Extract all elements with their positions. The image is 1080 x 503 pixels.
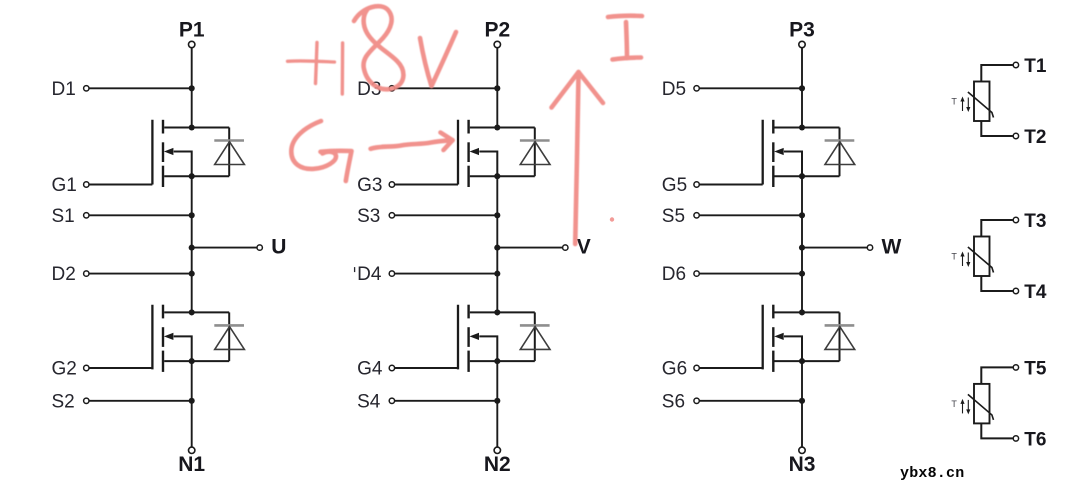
svg-text:T1: T1 [1024, 56, 1047, 77]
thermistor RT2 (NTC temperature sensor) [951, 220, 1013, 291]
diode body diode of Q1 [214, 128, 244, 177]
svg-text:T4: T4 [1024, 282, 1047, 303]
svg-text:D1: D1 [52, 79, 76, 100]
node T4 terminal [1013, 282, 1047, 303]
svg-text:G2: G2 [52, 359, 77, 380]
junction S2 on bus [189, 398, 195, 404]
wire D1 to bus [89, 87, 192, 89]
wire mid bus (upper source to lower drain) [801, 176, 803, 312]
wire lower bus (lower source to N2) [496, 361, 498, 447]
svg-text:N1: N1 [178, 453, 205, 476]
junction Q2 drain/bus [189, 309, 195, 315]
node D3 (upper drain sense) [357, 79, 394, 100]
junction Q3 source/bus [494, 173, 500, 179]
transistor Q3 upper N-MOSFET [458, 120, 535, 187]
junction phase U [189, 245, 195, 251]
transistor Q1 upper N-MOSFET [152, 120, 229, 187]
wire D5 to bus [699, 87, 802, 89]
svg-text:S5: S5 [662, 206, 685, 227]
wire phase output V [497, 247, 562, 249]
junction D3 on bus [494, 85, 500, 91]
annotation "G" with squiggly arrow pointing to Q3 gate (red) [291, 121, 452, 181]
node G4 (lower gate) [357, 359, 394, 380]
junction D5 on bus [799, 85, 805, 91]
wire G1 to gate [89, 184, 152, 186]
wire S4 to bus [395, 400, 498, 402]
node G3 (upper gate) [357, 175, 394, 196]
diode body diode of Q3 [520, 128, 550, 177]
node P3 (positive rail terminal) [789, 19, 815, 48]
junction Q4 drain/bus [494, 309, 500, 315]
node V (phase output terminal) [563, 235, 591, 258]
svg-text:ybx8.cn: ybx8.cn [900, 465, 964, 482]
node P2 (positive rail terminal) [484, 19, 510, 48]
transistor Q5 upper N-MOSFET [763, 120, 840, 187]
svg-text:V: V [577, 235, 591, 258]
svg-text:D6: D6 [662, 264, 686, 285]
node D2 (lower drain sense) [52, 264, 90, 285]
wire phase output U [192, 247, 257, 249]
node T2 terminal [1013, 127, 1046, 148]
junction Q3 drain/bus [494, 124, 500, 130]
junction phase V [494, 245, 500, 251]
wire D6 to bus [699, 273, 802, 275]
node T1 terminal [1013, 56, 1047, 77]
wire G3 to gate [395, 184, 459, 186]
svg-text:D4: D4 [357, 264, 382, 285]
svg-text:S3: S3 [357, 206, 380, 227]
node G1 (upper gate) [52, 175, 90, 196]
svg-text:D5: D5 [662, 79, 686, 100]
node S2 (lower source sense) [52, 391, 90, 412]
node G2 (lower gate) [52, 359, 90, 380]
junction Q2 source/bus [189, 358, 195, 364]
wire P1 bus down to upper drain [191, 48, 193, 128]
junction S3 on bus [494, 212, 500, 218]
junction S4 on bus [494, 398, 500, 404]
diode body diode of Q6 [825, 312, 855, 361]
node S4 (lower source sense) [357, 391, 394, 412]
junction Q6 source/bus [799, 358, 805, 364]
wire S6 to bus [699, 400, 802, 402]
annotation "+18V" hand-written in red [288, 6, 457, 94]
junction Q5 drain/bus [799, 124, 805, 130]
svg-text:S6: S6 [662, 391, 685, 412]
svg-text:T5: T5 [1024, 358, 1047, 379]
node N3 (negative rail terminal) [789, 447, 816, 476]
wire S2 to bus [89, 400, 192, 402]
svg-text:D2: D2 [52, 264, 76, 285]
junction Q1 source/bus [189, 173, 195, 179]
wire lower bus (lower source to N1) [191, 361, 193, 447]
node G5 (upper gate) [662, 175, 700, 196]
junction Q4 source/bus [494, 358, 500, 364]
node S5 (upper source sense) [662, 206, 700, 227]
node D1 (upper drain sense) [52, 79, 90, 100]
transistor Q6 lower N-MOSFET [763, 305, 840, 372]
node U (phase output terminal) [257, 235, 286, 258]
svg-text:P3: P3 [789, 19, 815, 42]
svg-text:G6: G6 [662, 359, 687, 380]
node T3 terminal [1013, 211, 1046, 232]
thermistor RT1 (NTC temperature sensor) [951, 65, 1013, 136]
transistor Q4 lower N-MOSFET [458, 305, 535, 372]
svg-text:G4: G4 [357, 359, 383, 380]
svg-text:T6: T6 [1024, 429, 1046, 450]
junction D2 on bus [189, 271, 195, 277]
wire lower bus (lower source to N3) [801, 361, 803, 447]
annotation small red dot [610, 217, 614, 221]
node S3 (upper source sense) [357, 206, 394, 227]
svg-text:W: W [882, 235, 902, 258]
junction Q5 source/bus [799, 173, 805, 179]
svg-text:P1: P1 [179, 19, 205, 42]
wire phase output W [802, 247, 867, 249]
node W (phase output terminal) [867, 235, 901, 258]
svg-text:S2: S2 [52, 391, 75, 412]
wire mid bus (upper source to lower drain) [496, 176, 498, 312]
wire P2 bus down to upper drain [496, 48, 498, 128]
transistor Q2 lower N-MOSFET [152, 305, 229, 372]
wire P3 bus down to upper drain [801, 48, 803, 128]
junction D4 on bus [494, 271, 500, 277]
wire mid bus (upper source to lower drain) [191, 176, 193, 312]
node G6 (lower gate) [662, 359, 700, 380]
wire S3 to bus [395, 214, 498, 216]
wire D4 to bus [395, 273, 498, 275]
junction phase W [799, 245, 805, 251]
wire G5 to gate [699, 184, 763, 186]
node T5 terminal [1013, 358, 1047, 379]
svg-text:T3: T3 [1024, 211, 1046, 232]
svg-text:N2: N2 [484, 453, 511, 476]
wire S5 to bus [699, 214, 802, 216]
diode body diode of Q4 [520, 312, 550, 361]
wire D2 to bus [89, 273, 192, 275]
node T6 terminal [1013, 429, 1046, 450]
thermistor RT3 (NTC temperature sensor) [951, 367, 1013, 438]
junction D6 on bus [799, 271, 805, 277]
node S6 (lower source sense) [662, 391, 700, 412]
wire G2 to gate [89, 367, 152, 369]
junction S1 on bus [189, 212, 195, 218]
junction D1 on bus [189, 85, 195, 91]
node N1 (negative rail terminal) [178, 447, 205, 476]
wire S1 to bus [89, 214, 192, 216]
node N2 (negative rail terminal) [484, 447, 511, 476]
svg-text:G3: G3 [357, 175, 382, 196]
svg-text:G1: G1 [52, 175, 77, 196]
wire G4 to gate [395, 367, 459, 369]
svg-text:S4: S4 [357, 391, 381, 412]
svg-text:S1: S1 [52, 206, 75, 227]
annotation current arrow "I" pointing up (red) [552, 16, 643, 244]
svg-text:N3: N3 [789, 453, 816, 476]
node D6 (lower drain sense) [662, 264, 700, 285]
junction S5 on bus [799, 212, 805, 218]
junction Q1 drain/bus [189, 124, 195, 130]
node D5 (upper drain sense) [662, 79, 700, 100]
wire G6 to gate [699, 367, 763, 369]
svg-text:P2: P2 [484, 19, 510, 42]
junction S6 on bus [799, 398, 805, 404]
node S1 (upper source sense) [52, 206, 90, 227]
svg-text:G5: G5 [662, 175, 687, 196]
svg-text:U: U [271, 235, 286, 258]
node P1 (positive rail terminal) [179, 19, 205, 48]
diode body diode of Q2 [214, 312, 244, 361]
wire D3 to bus [395, 87, 498, 89]
diode body diode of Q5 [825, 128, 855, 177]
junction Q6 drain/bus [799, 309, 805, 315]
svg-text:T2: T2 [1024, 127, 1046, 148]
node D4 (lower drain sense) [355, 264, 395, 285]
